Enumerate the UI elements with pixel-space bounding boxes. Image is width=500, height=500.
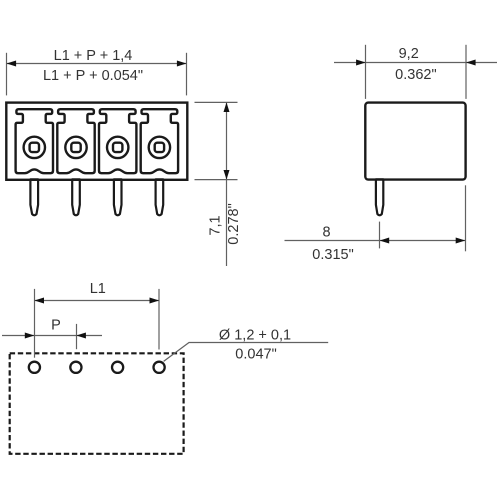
arrowhead right (overall width): [177, 61, 187, 67]
svg-text:0.278": 0.278": [226, 203, 242, 244]
svg-text:9,2: 9,2: [399, 46, 419, 62]
svg-text:Ø 1,2 + 0,1: Ø 1,2 + 0,1: [219, 327, 291, 343]
arrowhead down (height): [224, 170, 230, 180]
dimension: housing height extension line (top): [195, 101, 238, 103]
pole chamber outline (position 2): [57, 109, 94, 173]
svg-text:0.362": 0.362": [395, 67, 436, 83]
contact circle (position 1): [24, 137, 45, 158]
dimension: depth extension line (left): [365, 45, 367, 99]
svg-text:8: 8: [323, 224, 331, 240]
arrowhead right (L1): [150, 298, 160, 304]
pole chamber outline (position 3): [99, 109, 136, 173]
footprint: PCB outline (dashed): [10, 353, 184, 454]
contact square pin opening (position 4): [155, 143, 164, 152]
leader line from hole 4: [164, 343, 329, 362]
svg-text:0.315": 0.315": [312, 247, 353, 263]
dimension line: pin offset 8: [285, 240, 466, 242]
arrowhead (pin offset, at pin centre): [380, 238, 390, 244]
svg-text:0.047": 0.047": [235, 347, 276, 363]
solder pin (side view): [376, 179, 383, 215]
solder pin (front view, position 2): [72, 179, 80, 215]
dimension: overall width extension line (left): [6, 53, 8, 96]
dimension: L1 extension line (hole 1): [34, 289, 36, 358]
drill hole (position 3): [112, 362, 123, 373]
dimension line: depth 9,2: [334, 62, 497, 64]
front view: connector housing outline: [6, 103, 187, 180]
solder pin (front view, position 3): [114, 179, 122, 215]
arrowhead (depth, left outside): [356, 60, 366, 66]
arrowhead (P, right outside): [76, 333, 86, 339]
arrowhead (depth, right outside): [466, 60, 476, 66]
arrowhead (pin offset, at housing face): [456, 238, 466, 244]
arrowhead left (overall width): [7, 61, 17, 67]
dimension: housing height extension line (bottom): [195, 179, 238, 181]
pole chamber outline (position 1): [16, 109, 53, 173]
arrowhead left (L1): [34, 298, 44, 304]
pole chamber outline (position 4): [141, 109, 178, 173]
side view: connector housing outline: [365, 103, 465, 180]
solder pin (front view, position 1): [30, 179, 38, 215]
dimension: overall width extension line (right): [186, 53, 188, 96]
drill hole (position 1): [29, 362, 40, 373]
contact square pin opening (position 3): [113, 143, 122, 152]
dimension line: P: [2, 335, 102, 337]
svg-text:L1 + P + 0.054": L1 + P + 0.054": [43, 68, 143, 84]
dimension: depth extension line (right): [465, 45, 467, 99]
svg-text:7,1: 7,1: [208, 215, 224, 235]
dimension line: height 7,1: [226, 102, 228, 266]
contact circle (position 3): [107, 137, 128, 158]
contact circle (position 2): [65, 137, 86, 158]
svg-text:L1: L1: [90, 281, 106, 297]
dimension: P extension line (hole 2): [76, 324, 78, 349]
contact circle (position 4): [149, 137, 170, 158]
drill hole (position 2): [70, 362, 81, 373]
arrowhead up (height): [224, 102, 230, 112]
contact square pin opening (position 2): [71, 143, 80, 152]
solder pin (front view, position 4): [156, 179, 164, 215]
dimension: pin offset extension line (pin centre): [379, 222, 381, 249]
drill hole (position 4): [154, 362, 165, 373]
arrowhead (P, left outside): [25, 333, 35, 339]
svg-text:P: P: [51, 317, 61, 333]
dimension line: L1 + P + 1,4: [7, 63, 187, 65]
contact square pin opening (position 1): [30, 143, 39, 152]
svg-text:L1 + P + 1,4: L1 + P + 1,4: [54, 48, 133, 64]
dimension: pin offset extension line (housing right face): [465, 185, 467, 251]
dimension line: L1: [34, 300, 159, 302]
dimension: L1 extension line (hole 4): [158, 289, 160, 350]
